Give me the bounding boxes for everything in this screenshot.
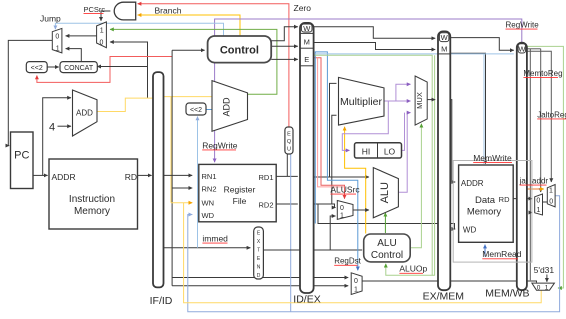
svg-text:Multiplier: Multiplier bbox=[340, 96, 383, 108]
wire: PC output riser to ADD1 bbox=[43, 98, 71, 176]
wire: jal select down to mux B bbox=[527, 51, 551, 182]
svg-text:E: E bbox=[287, 131, 291, 137]
svg-text:M: M bbox=[441, 45, 447, 54]
svg-text:RD: RD bbox=[125, 172, 137, 182]
svg-text:Instruction: Instruction bbox=[69, 194, 115, 205]
svg-text:0: 0 bbox=[100, 39, 104, 46]
CONCAT unit bbox=[60, 62, 97, 73]
wire: jump offset tap to shift-left-2 (red) bbox=[37, 57, 172, 83]
ALU control unit bbox=[364, 234, 411, 262]
wire: WN input join bbox=[171, 202, 192, 204]
pipeline register IF/ID bbox=[153, 72, 164, 287]
wire: RegWrite from Control bottom to Register File (purple) bbox=[214, 63, 216, 163]
svg-text:0: 0 bbox=[340, 205, 344, 212]
pipeline register ID/EX bbox=[300, 23, 314, 293]
wire: instruction bus to RN1 bbox=[164, 174, 193, 176]
PC register bbox=[11, 132, 34, 189]
wire: result MUX select from ALU Control bbox=[410, 124, 421, 248]
wire: Zero signal (EQU output to AND gate, red, top) bbox=[138, 4, 289, 127]
wire: extended immediate to ALU Control bbox=[263, 249, 362, 251]
register file bbox=[199, 164, 276, 221]
ALU bbox=[373, 168, 398, 218]
pipeline register EX/MEM bbox=[438, 31, 450, 290]
wire: extended immediate riser to ALUSrc mux 1 bbox=[330, 216, 335, 250]
wire: tap into MemtoReg mux 1 bbox=[530, 212, 532, 214]
wire: Multiplier output branch to result MUX input 1 (purple) bbox=[396, 84, 411, 101]
wire: Multiplier output branch to HI LO register (purple) bbox=[342, 101, 388, 150]
HI LO registers bbox=[355, 143, 402, 158]
wire: rt field to RN2 bbox=[172, 187, 192, 189]
svg-text:ADDR: ADDR bbox=[52, 172, 76, 182]
wire: ALU output to result MUX input 3 (purple) bbox=[398, 113, 410, 193]
wire: PCSrc select (AND output down into PCSrc mux) bbox=[101, 11, 110, 21]
svg-text:0: 0 bbox=[536, 197, 540, 204]
node MemWrite label bbox=[473, 153, 512, 163]
result MUX bbox=[415, 76, 427, 125]
wire: PC+4 after IF/ID to ADD2 (yellow) bbox=[164, 96, 217, 98]
svg-text:M: M bbox=[304, 38, 310, 47]
wire: Control to ID/EX M section bbox=[271, 45, 298, 47]
svg-text:WN: WN bbox=[202, 199, 215, 208]
wire: result-mux select green bbox=[432, 55, 434, 275]
wire: PC+4 into PCSrc mux 0 input bbox=[110, 42, 148, 98]
wire: constant 4 into ADD1 bbox=[58, 125, 72, 127]
svg-text:Branch: Branch bbox=[155, 6, 182, 16]
svg-text:ALUOp: ALUOp bbox=[399, 264, 427, 274]
wire: MemtoReg select down to mux A bbox=[540, 49, 542, 192]
wire: Control to ID/EX W section bbox=[271, 27, 298, 41]
wire: ALU result to Data Memory ADDR bbox=[450, 100, 455, 182]
svg-text:WD: WD bbox=[463, 226, 477, 235]
svg-text:RegWrite: RegWrite bbox=[506, 21, 540, 30]
svg-text:HI: HI bbox=[362, 146, 371, 156]
adder ADD2 (branch target) bbox=[212, 81, 248, 132]
wire: Branch signal (Control to AND gate, orange) bbox=[138, 15, 240, 37]
svg-text:MemRead: MemRead bbox=[482, 249, 521, 259]
wire: Jump signal (Control top to jump mux select, light blue) bbox=[55, 23, 223, 36]
svg-text:RegDst: RegDst bbox=[334, 257, 361, 266]
svg-text:4: 4 bbox=[49, 122, 55, 134]
svg-text:RD2: RD2 bbox=[258, 201, 273, 210]
svg-text:5'd31: 5'd31 bbox=[534, 265, 555, 275]
svg-text:U: U bbox=[287, 147, 291, 153]
wire: shift-left-2 to CONCAT bbox=[47, 66, 59, 68]
svg-text:W: W bbox=[518, 44, 526, 53]
wire: instruction memory RD to IF/ID bbox=[138, 174, 152, 176]
wire: instruction to Control bbox=[172, 49, 205, 51]
svg-text:CONCAT: CONCAT bbox=[64, 65, 94, 72]
wire: ID/EX W to EX/MEM W bbox=[314, 27, 436, 39]
multiplier unit bbox=[339, 77, 385, 125]
svg-text:<<2: <<2 bbox=[31, 65, 43, 72]
svg-text:0: 0 bbox=[354, 278, 358, 285]
wire: MemRead vertical behind Data Memory (light blue) bbox=[483, 54, 485, 164]
wire: writeback data (mux B output, light blue, bottom feedback to WD) bbox=[188, 196, 560, 312]
wire: ID/EX M to EX/MEM M bbox=[314, 43, 436, 50]
memory stage outline bbox=[453, 161, 532, 263]
pipeline register MEM/WB bbox=[517, 43, 527, 291]
svg-text:ALU: ALU bbox=[379, 182, 391, 203]
svg-text:E: E bbox=[304, 55, 309, 64]
svg-text:T: T bbox=[257, 248, 260, 254]
svg-text:immed: immed bbox=[202, 234, 228, 244]
wire: MemRead band to MEM/WB (light blue) bbox=[314, 53, 514, 55]
node PCSrc label bbox=[84, 5, 106, 14]
wire: immed field to EXTEND bbox=[164, 247, 251, 249]
wire: RD1 riser to Multiplier input 1 bbox=[330, 83, 337, 177]
svg-text:RD: RD bbox=[499, 195, 510, 204]
svg-text:<<2: <<2 bbox=[190, 107, 202, 114]
svg-text:RD1: RD1 bbox=[258, 173, 273, 182]
wire: rd field bus to RegDst mux 1 bbox=[172, 285, 348, 287]
adder ADD1 (PC+4) bbox=[73, 90, 98, 136]
svg-text:Register: Register bbox=[224, 185, 256, 195]
svg-text:W: W bbox=[441, 33, 449, 42]
node RegWrite label (register file) bbox=[202, 140, 238, 150]
svg-text:PC: PC bbox=[14, 150, 29, 162]
node RegDst label bbox=[334, 257, 361, 266]
wire: LO output join to MUX input 3 (purple) bbox=[402, 113, 405, 151]
node MemRead label bbox=[482, 249, 521, 259]
wire: RD1 from Register File into ID/EX bbox=[276, 175, 298, 177]
wire: 5'd31 constant arrow bbox=[546, 275, 548, 282]
wire: shift-left-2 #2 output to ADD2 (blue) bbox=[206, 109, 217, 111]
wire: store data path to Data Memory WD bbox=[318, 204, 455, 229]
wire: PC+4 branch down to WN join (yellow) bbox=[170, 97, 172, 203]
mux PCSrc (1/0) bbox=[97, 22, 107, 48]
wire: PC+4 upper bits into CONCAT bbox=[97, 66, 147, 68]
svg-text:Zero: Zero bbox=[294, 3, 312, 13]
svg-text:1: 1 bbox=[340, 213, 344, 220]
svg-text:W: W bbox=[303, 24, 311, 33]
svg-text:N: N bbox=[257, 265, 261, 271]
ID/EX W box bbox=[301, 24, 312, 33]
mux 5'd31 (horizontal 0 1) bbox=[532, 283, 555, 291]
wire: RegWrite pipeline (Control top to MEM/WB W box, purple) bbox=[215, 19, 522, 42]
svg-text:Jump: Jump bbox=[40, 14, 61, 24]
control unit bbox=[208, 36, 272, 63]
node ALUOp label bbox=[399, 264, 427, 274]
wire: Control to ID/EX E section bbox=[271, 58, 298, 60]
wire: EX/MEM M to MemWrite vertical bbox=[450, 53, 485, 163]
wire: result MUX output into EX/MEM bbox=[427, 99, 435, 101]
svg-text:PCSrc: PCSrc bbox=[84, 5, 106, 14]
wire: EQU input riser from RD1 bbox=[286, 152, 288, 176]
svg-text:ADD: ADD bbox=[76, 109, 93, 118]
svg-text:LO: LO bbox=[384, 146, 396, 156]
node JaltoReg label bbox=[537, 110, 566, 119]
wire: jal_addr from MEM/WB to mux B input 1 (orange) bbox=[527, 188, 544, 190]
svg-text:Control: Control bbox=[220, 45, 259, 57]
wire: PC+4 (ADD1 output to IF/ID, yellow) bbox=[97, 98, 153, 111]
EX/MEM W box bbox=[439, 33, 449, 42]
AND gate (branch taken) bbox=[114, 2, 135, 20]
svg-text:0: 0 bbox=[537, 284, 541, 291]
wire: RegDst signal (blue, ID/EX E down to RegDst mux) bbox=[315, 52, 358, 270]
wire: Multiplier output to result MUX input 2 (purple) bbox=[384, 100, 411, 102]
mux jal B (1/0) bbox=[547, 185, 555, 207]
svg-text:1: 1 bbox=[56, 45, 60, 52]
svg-text:RN2: RN2 bbox=[202, 185, 217, 194]
wire: immed branch up to shift-left-2 (branch offset, light blue) bbox=[197, 117, 199, 248]
svg-text:MemWrite: MemWrite bbox=[473, 153, 512, 163]
svg-text:ID/EX: ID/EX bbox=[293, 294, 320, 306]
wire: ALUSrc signal (red pair from ID/EX E) bbox=[314, 58, 345, 199]
node RegWrite label (top right) bbox=[506, 21, 540, 30]
wire: CONCAT output up to jump mux 1 input bbox=[66, 49, 82, 62]
node immed label bbox=[202, 234, 228, 244]
wire: Data Memory RD to MemtoReg mux 0 bbox=[513, 198, 532, 200]
wire: ALU Control to ALU select bbox=[384, 213, 386, 233]
shifter <<2 #2 (branch offset) bbox=[186, 103, 206, 115]
svg-text:JaltoReg: JaltoReg bbox=[537, 110, 566, 119]
svg-text:ALU: ALU bbox=[377, 238, 396, 249]
svg-text:RegWrite: RegWrite bbox=[202, 140, 238, 150]
wire: RD2 after ID/EX to ALUSrc mux 0 bbox=[314, 204, 336, 208]
svg-text:D: D bbox=[257, 273, 261, 279]
instruction memory bbox=[49, 159, 138, 229]
svg-text:1: 1 bbox=[100, 28, 104, 35]
svg-text:ADD: ADD bbox=[222, 97, 232, 117]
svg-text:RN1: RN1 bbox=[202, 172, 217, 181]
wire: instruction field vertical tap bbox=[171, 50, 173, 286]
wire: RD2 riser to Multiplier input 2 bbox=[332, 115, 337, 204]
ID/EX M box bbox=[300, 33, 314, 48]
sign extend unit bbox=[254, 227, 264, 279]
svg-text:jal_addr: jal_addr bbox=[519, 177, 549, 186]
wire: jump mux output to PC input bbox=[8, 40, 52, 145]
mux jump (0/1) bbox=[52, 28, 62, 53]
wire: ALUSrc parallel red bbox=[318, 58, 345, 187]
wire: MultOp signal (orange, up into Multiplier) bbox=[345, 127, 366, 234]
wire: writeback reg-number tap vertical bbox=[529, 49, 531, 280]
wire: PC output to instruction memory ADDR bbox=[33, 174, 48, 176]
wire: MemRead arrow into Data Memory bottom (blue) bbox=[484, 245, 486, 257]
svg-text:MUX: MUX bbox=[415, 92, 424, 109]
wire: ALUSrc mux output to ALU input 2 bbox=[353, 209, 369, 211]
wire: PCSrc mux output to jump mux 0 input bbox=[66, 35, 97, 37]
svg-text:ADDR: ADDR bbox=[461, 179, 484, 188]
wire: MEM/WB W fanout upper bbox=[527, 48, 541, 50]
wire: branch target (ADD2 output to PCSrc mux input 1, green) bbox=[110, 29, 277, 94]
svg-text:File: File bbox=[233, 196, 247, 206]
svg-text:Data: Data bbox=[475, 195, 496, 206]
EX/MEM M box bbox=[438, 45, 450, 54]
wire: EQU input riser from writeback (light blue) bbox=[290, 152, 292, 312]
svg-text:WD: WD bbox=[202, 211, 215, 220]
svg-text:Q: Q bbox=[287, 139, 292, 145]
wire: JaltoReg green to 5'd31 mux bbox=[527, 46, 564, 288]
svg-text:Memory: Memory bbox=[74, 206, 110, 217]
wire: mux A output to mux B input 0 bbox=[543, 201, 548, 203]
svg-text:Memory: Memory bbox=[467, 207, 502, 218]
svg-text:Control: Control bbox=[371, 250, 403, 261]
svg-text:1: 1 bbox=[549, 188, 553, 195]
data memory bbox=[459, 165, 514, 242]
EQU comparator bbox=[285, 127, 293, 154]
wire: RD2 from Register File into ID/EX bbox=[276, 203, 298, 205]
svg-text:0: 0 bbox=[549, 198, 553, 205]
wire: write reg number feedback (5'd31 mux output, yellow, to WN) bbox=[184, 203, 542, 303]
mux RegDst (0/1) bbox=[351, 273, 362, 295]
wire: RD1 after ID/EX to ALU input 1 bbox=[314, 176, 369, 178]
svg-text:0: 0 bbox=[55, 34, 59, 41]
svg-text:1: 1 bbox=[354, 287, 358, 294]
svg-text:ALUSrc: ALUSrc bbox=[330, 185, 360, 195]
wire: ALUOp green from ID/EX E to ALU Control bbox=[314, 55, 433, 275]
shifter <<2 (jump) bbox=[26, 62, 47, 73]
svg-text:MemtoReg: MemtoReg bbox=[523, 69, 562, 78]
node ALUSrc label bbox=[330, 185, 360, 195]
svg-text:1: 1 bbox=[545, 284, 549, 291]
wire: EX/MEM W to MEM/WB W bbox=[450, 38, 514, 51]
MEM/WB W box bbox=[518, 44, 526, 54]
svg-text:EX/MEM: EX/MEM bbox=[423, 291, 464, 303]
wire: rt field bus to RegDst mux 0 bbox=[172, 277, 348, 279]
mux ALUSrc (0/1) bbox=[337, 201, 353, 220]
ID/EX E box bbox=[300, 55, 314, 66]
wire: write register number (RegDst mux output across to 5'd31 mux) bbox=[362, 281, 536, 283]
svg-text:MEM/WB: MEM/WB bbox=[485, 288, 529, 300]
node jal_addr label bbox=[519, 177, 549, 186]
node MemtoReg label bbox=[523, 69, 562, 78]
svg-text:1: 1 bbox=[537, 207, 541, 214]
svg-text:IF/ID: IF/ID bbox=[150, 295, 173, 307]
mux MemtoReg A (0/1) bbox=[535, 194, 543, 215]
